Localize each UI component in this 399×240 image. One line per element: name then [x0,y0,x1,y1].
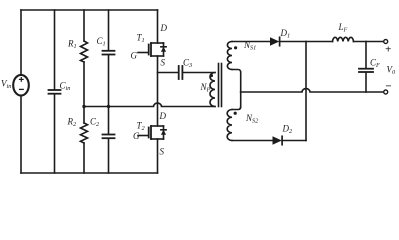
capacitor C2 [103,135,115,139]
node output minus terminal [384,90,388,94]
svg-text:Cin: Cin [60,81,71,93]
svg-text:−: − [385,81,392,93]
wire mid to R2 [83,107,85,124]
svg-text:G: G [131,51,138,61]
wire T1 drain [157,10,159,43]
svg-text:D: D [159,111,167,121]
winding Ns2 [227,110,232,141]
svg-text:R2: R2 [67,117,78,129]
capacitor Cin [49,90,61,94]
svg-text:G: G [133,131,140,141]
svg-text:V0: V0 [387,65,397,77]
svg-text:S: S [161,58,166,68]
wire R2 to bottom [83,143,85,173]
node junction R-mid [82,105,85,108]
transformer core [219,64,222,107]
svg-text:LF: LF [338,22,348,34]
transistor T1 [138,43,166,56]
wire left rail upper [20,10,22,75]
resistor R2 [81,123,88,143]
diode D1 [270,37,280,45]
svg-text:CF: CF [370,58,380,70]
wire junction vertical [305,42,307,141]
diode D2 [273,136,283,144]
svg-text:NP: NP [200,82,211,94]
svg-text:D1: D1 [280,28,291,40]
node polarity dot Ns1 [234,46,237,49]
capacitor C3 [179,66,183,79]
wire center tap link [240,92,242,107]
wire center tap to output with hop [241,89,384,92]
wire Lf to output [354,41,384,43]
inductor Lf [333,37,354,41]
wire C3 right lead [183,72,215,74]
wire R branch top lead [83,10,85,41]
svg-text:D: D [160,23,168,33]
svg-text:T1: T1 [137,33,145,45]
capacitor C1 [103,51,115,55]
wire Ns1 bottom lead [232,70,241,93]
wire bottom rail [21,172,158,174]
wire Cin branch lower [54,95,56,173]
wire C3 left lead [158,72,178,74]
svg-text:Vin: Vin [1,79,11,91]
svg-text:C3: C3 [183,58,192,70]
wire mid to C2 [108,107,110,134]
wire C1 to mid [108,56,110,107]
node polarity dot Ns2 [234,112,237,115]
wire C branch upper [108,10,110,50]
svg-text:C1: C1 [97,36,106,48]
capacitor Cf [359,42,373,93]
svg-text:S: S [160,147,165,157]
svg-text:R1: R1 [67,39,77,51]
node output plus terminal [384,40,388,44]
svg-text:D2: D2 [282,124,294,136]
wire top rail [21,9,158,11]
svg-text:+: + [385,44,391,56]
wire Ns2 top lead [232,107,241,110]
wire D2 to junction [282,140,306,142]
wire Ns2 to D2 [232,140,273,142]
wire D1 to Lf [280,41,333,43]
node polarity dot Np [210,74,213,77]
svg-text:NS2: NS2 [245,113,259,125]
wire left rail lower [20,96,22,174]
wire Cin branch upper [54,10,56,89]
resistor R1 [81,41,88,62]
source Vin [13,75,29,96]
wire Ns1 to D1 [232,41,270,43]
svg-text:C2: C2 [90,117,100,129]
node junction C-mid [107,105,110,108]
wire T2 source to bottom rail [157,139,159,173]
wire T1 source to T2 drain [157,56,159,126]
transistor T2 [138,126,166,139]
wire C2 to bottom [108,139,110,173]
wire R1 to mid [83,62,85,107]
winding Np primary [210,73,215,107]
winding Ns1 [227,42,232,70]
wire mid rail with hop over switch line [84,103,215,106]
